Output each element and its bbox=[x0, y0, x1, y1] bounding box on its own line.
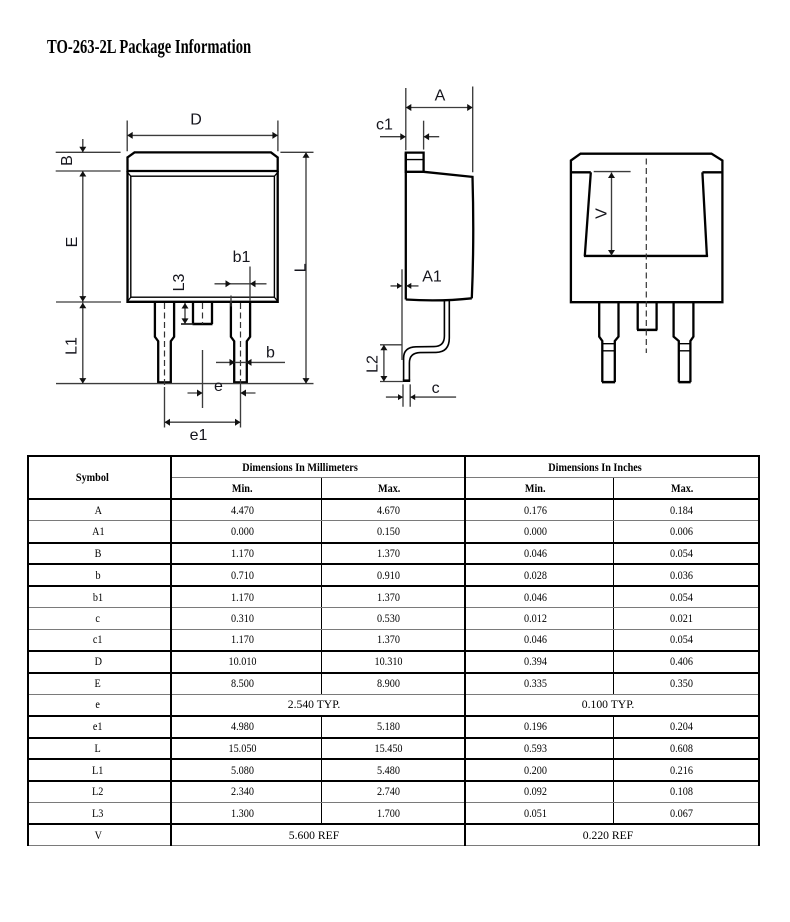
svg-text:e: e bbox=[214, 378, 223, 395]
svg-text:b: b bbox=[266, 345, 275, 362]
svg-text:A1: A1 bbox=[422, 269, 442, 286]
svg-text:E: E bbox=[64, 237, 81, 248]
svg-text:b1: b1 bbox=[233, 249, 251, 266]
svg-text:c1: c1 bbox=[376, 117, 393, 134]
svg-text:L3: L3 bbox=[171, 274, 188, 292]
svg-text:e1: e1 bbox=[190, 427, 208, 444]
svg-text:V: V bbox=[594, 208, 611, 219]
svg-text:L: L bbox=[292, 263, 309, 272]
svg-text:L2: L2 bbox=[365, 355, 382, 373]
svg-text:A: A bbox=[435, 88, 446, 105]
svg-text:c: c bbox=[432, 380, 440, 397]
svg-text:B: B bbox=[59, 155, 76, 166]
svg-text:D: D bbox=[190, 112, 202, 129]
svg-text:L1: L1 bbox=[63, 337, 80, 355]
